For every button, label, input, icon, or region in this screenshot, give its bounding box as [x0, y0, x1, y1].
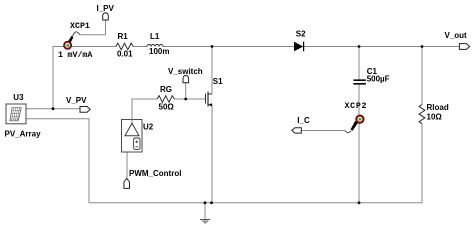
wire V_PV: [26, 108, 80, 110]
op-amp U2 (PWM driver block): [122, 120, 143, 153]
wire RG left + U2 top pin: [132, 99, 157, 120]
svg-text:U3: U3: [13, 93, 24, 102]
terminal V_switch: [183, 75, 189, 82]
wire left vertical: [52, 46, 54, 109]
svg-text:XCP1: XCP1: [70, 22, 90, 31]
node drain/top junction: [211, 45, 214, 48]
svg-text:U2: U2: [143, 123, 154, 132]
svg-text:L1: L1: [150, 32, 160, 41]
terminal V_out: [459, 44, 469, 50]
node C1 bottom junction: [358, 201, 361, 204]
wire XCP1 hook: [73, 32, 81, 36]
wire top main: [53, 46, 459, 48]
resistor R1: [116, 43, 133, 50]
terminal I_C: [292, 128, 302, 133]
wire XCP2 hook: [345, 131, 351, 133]
resistor RG: [157, 96, 174, 103]
node source bottom junction: [210, 201, 213, 204]
svg-text:S2: S2: [296, 30, 306, 39]
wire MOSFET drain vertical: [211, 47, 213, 95]
node gate junction: [184, 98, 187, 101]
svg-text:Rload: Rload: [427, 103, 449, 112]
terminal I_PV: [103, 13, 109, 20]
wire V_switch: [185, 83, 187, 99]
ground: [204, 203, 206, 219]
svg-text:10Ω: 10Ω: [427, 113, 443, 122]
svg-text:100m: 100m: [149, 47, 169, 56]
PV array block U3: [6, 104, 26, 124]
node junction dots: [52, 45, 424, 204]
svg-text:PV_Array: PV_Array: [5, 129, 42, 138]
wire U2 bottom pin to PWM terminal: [126, 136, 128, 179]
wire I_C: [301, 130, 345, 132]
node Rload top junction: [421, 45, 424, 48]
current probe XCP1: [68, 36, 74, 43]
resistor Rload: [419, 105, 425, 124]
capacitor C1: [353, 80, 366, 84]
svg-text:V_PV: V_PV: [66, 96, 87, 105]
wire C1 branch: [358, 47, 360, 203]
svg-text:50Ω: 50Ω: [159, 103, 175, 112]
svg-text:XCP2: XCP2: [345, 102, 368, 111]
node V_PV junction: [52, 107, 55, 110]
node ground junction: [204, 201, 207, 204]
svg-text:S1: S1: [213, 77, 223, 86]
svg-text:I_C: I_C: [297, 116, 310, 125]
svg-text:RG: RG: [160, 85, 172, 94]
wire I_PV: [80, 20, 105, 35]
svg-text:R1: R1: [118, 32, 129, 41]
diode S2: [294, 42, 303, 52]
svg-text:V_switch: V_switch: [168, 67, 203, 76]
svg-text:1: 1: [58, 51, 63, 60]
transistor Q S1 (NMOS): [206, 92, 213, 107]
terminal V_PV: [80, 107, 90, 113]
wire Rload branch: [421, 47, 423, 204]
svg-text:500µF: 500µF: [367, 74, 390, 83]
svg-text:PWM_Control: PWM_Control: [129, 169, 181, 178]
node C1 top junction: [358, 45, 361, 48]
wire MOSFET source vertical: [211, 105, 213, 203]
inductor L1: [147, 45, 163, 47]
svg-text:0.01: 0.01: [117, 50, 133, 59]
terminal PWM_Control: [124, 178, 130, 188]
wire U3 bottom to ground rail: [26, 119, 422, 203]
wire RG right to gate: [174, 98, 205, 100]
svg-text:V_out: V_out: [445, 31, 468, 40]
svg-text:I_PV: I_PV: [97, 4, 115, 13]
current probe XCP2: [351, 121, 358, 131]
svg-text:mV/mA: mV/mA: [68, 50, 93, 60]
